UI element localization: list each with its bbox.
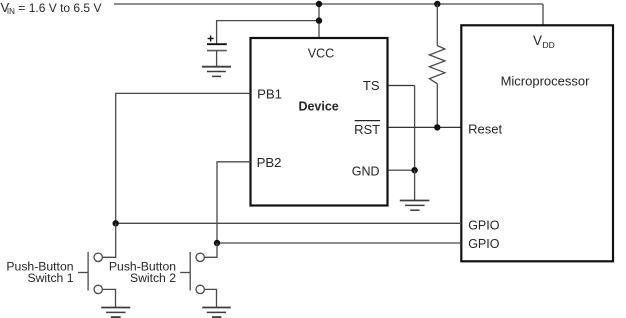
wire GND to ground <box>414 170 416 200</box>
wire switch2 to ground <box>205 289 217 307</box>
ground (switch2) <box>202 308 231 318</box>
label Push-Button Switch 2 <box>109 260 176 286</box>
svg-text:V: V <box>533 33 542 48</box>
junction dot VCC rail <box>316 1 322 7</box>
microprocessor U2 <box>461 25 613 261</box>
wire capacitor branch <box>217 21 319 45</box>
svg-text:Reset: Reset <box>468 122 502 137</box>
switch S2 <box>180 252 204 294</box>
svg-text:GPIO: GPIO <box>468 237 500 251</box>
junction dot capacitor branch <box>316 17 322 23</box>
wire TS pin <box>388 85 415 87</box>
wire switch1 top lead <box>103 223 116 257</box>
svg-text:PB1: PB1 <box>257 87 282 102</box>
wire switch2 top lead <box>205 243 217 257</box>
ground (switch1) <box>101 308 130 318</box>
wire PB2 pin <box>217 162 251 243</box>
wire GPIO1 <box>116 222 462 224</box>
junction dot resistor RST <box>434 124 440 130</box>
svg-text:RST: RST <box>354 122 380 137</box>
wire PB1 pin <box>116 93 251 223</box>
label VDD <box>533 33 555 50</box>
wire GND pin <box>388 169 415 171</box>
node VIN label <box>1 0 102 16</box>
junction dot GPIO1 switch1 <box>113 220 119 226</box>
device U1 <box>251 38 388 206</box>
wire RST to Reset <box>388 126 461 128</box>
wire VCC branch vertical <box>318 4 320 38</box>
svg-text:GPIO: GPIO <box>468 218 500 232</box>
junction dot resistor top <box>434 1 440 7</box>
ground (device GND) <box>400 201 430 211</box>
wire VDD drop <box>542 4 544 26</box>
svg-text:PB2: PB2 <box>257 155 282 170</box>
capacitor C1 <box>207 36 227 67</box>
svg-text:Device: Device <box>298 99 338 113</box>
ground (capacitor) <box>202 67 231 77</box>
wire VIN top rail <box>114 3 543 5</box>
svg-text:GND: GND <box>352 164 380 178</box>
svg-text:Microprocessor: Microprocessor <box>501 74 591 89</box>
svg-text:TS: TS <box>363 78 380 93</box>
junction dot GPIO2 switch2 <box>214 240 220 246</box>
wire GPIO2 <box>217 242 461 244</box>
switch S1 <box>78 252 102 294</box>
svg-text:Switch 1: Switch 1 <box>27 271 73 285</box>
resistor R1 <box>429 4 445 127</box>
svg-text:DD: DD <box>543 40 555 50</box>
svg-text:IN: IN <box>7 7 15 16</box>
svg-text:VCC: VCC <box>308 46 334 60</box>
label Push-Button Switch 1 <box>6 260 73 286</box>
wire TS to GND vertical <box>414 86 416 171</box>
label RST with overline <box>354 121 380 137</box>
svg-text:= 1.6 V to 6.5 V: = 1.6 V to 6.5 V <box>18 1 101 15</box>
junction dot GND TS <box>411 167 417 173</box>
svg-text:Switch 2: Switch 2 <box>130 271 176 285</box>
wire switch1 to ground <box>103 289 116 307</box>
